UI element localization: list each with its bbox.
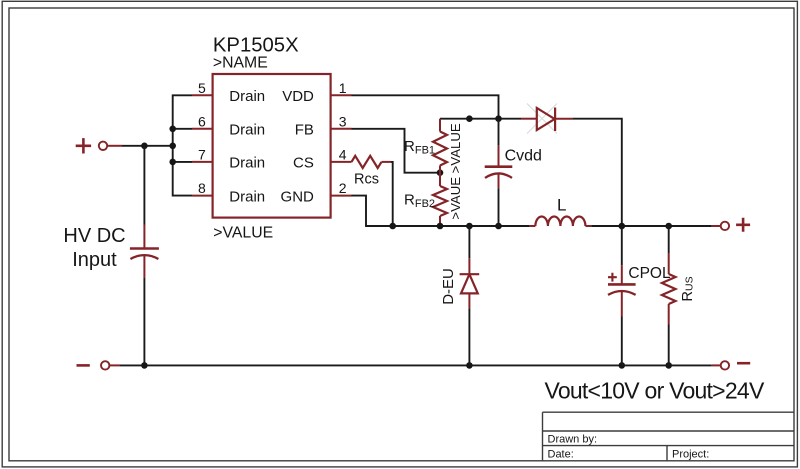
- svg-text:Vout<10V or Vout>24V: Vout<10V or Vout>24V: [545, 378, 765, 404]
- capacitor Cvdd top wire: [498, 119, 500, 146]
- node minus rail deu: [466, 362, 473, 369]
- diode D1 cathode bar: [554, 108, 556, 132]
- node rail rcs: [389, 223, 396, 230]
- wire pin6 to bus: [173, 128, 192, 130]
- output plus sign: [736, 218, 750, 232]
- wire top node horizontal: [440, 118, 521, 120]
- node rail deu: [466, 223, 473, 230]
- svg-text:>NAME: >NAME: [213, 54, 268, 71]
- svg-text:D-EU: D-EU: [440, 268, 457, 305]
- inductor L humps: [535, 217, 585, 227]
- input plus sign: [76, 138, 91, 153]
- resistor RFB2 zigzag: [433, 186, 447, 216]
- svg-text:CS: CS: [293, 155, 314, 172]
- wire diode to plus rail corner: [573, 119, 622, 226]
- resistor RFB2 bottom lead: [439, 216, 441, 226]
- svg-text:Rcs: Rcs: [354, 172, 379, 188]
- svg-text:Drain: Drain: [229, 155, 265, 172]
- pin 1 VDD stub: [331, 94, 352, 96]
- capacitor CPOL bottom lead red: [621, 291, 623, 316]
- node rail rus top: [665, 223, 672, 230]
- wire minus rail: [120, 364, 712, 366]
- output plus terminal pin: [712, 225, 721, 227]
- resistor Rus bottom lead red: [668, 304, 670, 325]
- diode D1 anode lead: [521, 118, 537, 120]
- svg-text:L: L: [557, 196, 566, 215]
- diode D1 triangle: [537, 108, 555, 130]
- output minus sign: [737, 362, 750, 365]
- capacitor CPOL top wire: [621, 226, 623, 265]
- wire input plus to bus: [122, 145, 173, 147]
- svg-text:Drain: Drain: [229, 188, 265, 205]
- diode D1 gray cross: [527, 104, 557, 134]
- output minus terminal circle: [721, 361, 729, 369]
- svg-text:KP1505X: KP1505X: [213, 35, 299, 57]
- wire input cap bottom to minus rail: [143, 278, 145, 365]
- output plus terminal circle: [721, 222, 729, 230]
- node bus pin6 junction: [169, 126, 176, 133]
- wire rcs down to rail: [391, 162, 393, 226]
- capacitor C input curved plate: [130, 255, 158, 259]
- svg-text:VDD: VDD: [282, 88, 314, 105]
- node rail cvdd: [495, 223, 502, 230]
- inductor L left lead red: [529, 225, 535, 227]
- resistor Rus top wire: [668, 226, 670, 253]
- svg-text:>VAUE >VALUE: >VAUE >VALUE: [448, 123, 463, 219]
- resistor Rcs zigzag: [352, 156, 382, 168]
- svg-text:6: 6: [198, 113, 206, 129]
- svg-text:7: 7: [198, 146, 206, 162]
- wire rus bottom to minus rail: [668, 325, 670, 366]
- wire input cap top lead: [143, 146, 145, 225]
- diode D-EU anode lead red: [468, 293, 470, 308]
- svg-text:Date:: Date:: [548, 448, 574, 460]
- title block outline: [543, 412, 795, 461]
- svg-text:1: 1: [339, 80, 347, 96]
- input minus terminal circle: [101, 361, 109, 369]
- node divider middle: [437, 169, 444, 176]
- node input cap junction: [141, 143, 148, 150]
- capacitor C input flat plate: [130, 247, 159, 250]
- input plus terminal circle: [99, 142, 107, 150]
- node top deu column: [466, 115, 473, 122]
- diode D-EU top wire: [468, 226, 470, 258]
- input minus sign: [77, 364, 90, 367]
- node minus rail input cap: [141, 362, 148, 369]
- wire pin1 vdd to top node: [352, 95, 499, 118]
- output minus terminal pin: [712, 364, 721, 366]
- svg-text:Project:: Project:: [672, 448, 709, 460]
- svg-text:CPOL: CPOL: [628, 265, 671, 282]
- input minus terminal pin: [110, 364, 121, 366]
- node minus rail rus: [665, 362, 672, 369]
- node bus pin7 junction: [169, 159, 176, 166]
- resistor Rus zigzag: [662, 274, 676, 304]
- resistor RFB1 bottom lead: [439, 166, 441, 187]
- op IC U1 KP1505X box: [213, 74, 331, 218]
- pin 2 GND stub: [331, 195, 352, 197]
- pin 3 FB stub: [331, 128, 352, 130]
- capacitor CPOL flat plate: [608, 283, 636, 286]
- inductor L right lead red: [585, 225, 591, 227]
- resistor RFB1 zigzag: [433, 132, 447, 166]
- wire plus rail right: [591, 225, 712, 227]
- diode D-EU triangle: [461, 274, 478, 293]
- capacitor C input bottom lead red: [143, 256, 145, 279]
- capacitor Cvdd curved plate: [485, 173, 512, 178]
- svg-text:>VALUE: >VALUE: [213, 225, 273, 242]
- resistor Rcs right lead: [382, 161, 392, 163]
- input plus terminal pin: [107, 145, 122, 147]
- svg-text:FB: FB: [295, 122, 314, 139]
- capacitor C input top lead red: [143, 225, 145, 249]
- svg-text:3: 3: [339, 113, 347, 129]
- resistor Rus top lead red: [668, 253, 670, 274]
- svg-text:5: 5: [198, 80, 206, 96]
- diode D1 cathode lead: [555, 118, 573, 120]
- resistor RFB1 top lead: [439, 119, 441, 132]
- svg-text:8: 8: [198, 180, 206, 196]
- wire pin3 fb to divider: [352, 129, 441, 173]
- capacitor Cvdd flat plate: [485, 165, 513, 168]
- diode D-EU cathode bar: [460, 273, 480, 275]
- node minus rail cpol: [619, 362, 626, 369]
- capacitor CPOL plus sign: [608, 273, 617, 282]
- wire cvdd bottom to rail: [498, 188, 500, 226]
- svg-text:Input: Input: [72, 249, 117, 271]
- node rail rfb2: [437, 223, 444, 230]
- svg-text:4: 4: [339, 146, 347, 162]
- pin 4 CS stub: [331, 161, 352, 163]
- svg-text:Drain: Drain: [229, 122, 265, 139]
- node top cvdd column: [495, 115, 502, 122]
- diode D-EU cathode lead red: [468, 258, 470, 274]
- wire left bus joining drain pins: [173, 95, 192, 195]
- wire pin2 gnd to rail: [352, 196, 530, 226]
- svg-text:GND: GND: [281, 188, 315, 205]
- svg-text:Drain: Drain: [229, 88, 265, 105]
- wire pin7 to bus: [173, 161, 192, 163]
- wire cpol bottom to minus rail: [621, 317, 623, 366]
- node bus input junction: [169, 143, 176, 150]
- svg-text:Cvdd: Cvdd: [505, 148, 542, 165]
- capacitor Cvdd top lead red: [498, 146, 500, 167]
- svg-text:HV DC: HV DC: [63, 225, 125, 247]
- svg-text:Drawn by:: Drawn by:: [548, 433, 598, 445]
- svg-text:2: 2: [339, 180, 347, 196]
- pin 5 Drain stub: [192, 94, 213, 96]
- wire deu bottom to minus rail: [468, 308, 470, 365]
- pin 6 Drain stub: [192, 128, 213, 130]
- pin 8 Drain stub: [192, 195, 213, 197]
- node rail cpol top: [619, 223, 626, 230]
- pin 7 Drain stub: [192, 161, 213, 163]
- capacitor CPOL curved plate: [608, 291, 636, 295]
- capacitor Cvdd bottom lead red: [498, 174, 500, 188]
- capacitor CPOL top lead red: [621, 265, 623, 284]
